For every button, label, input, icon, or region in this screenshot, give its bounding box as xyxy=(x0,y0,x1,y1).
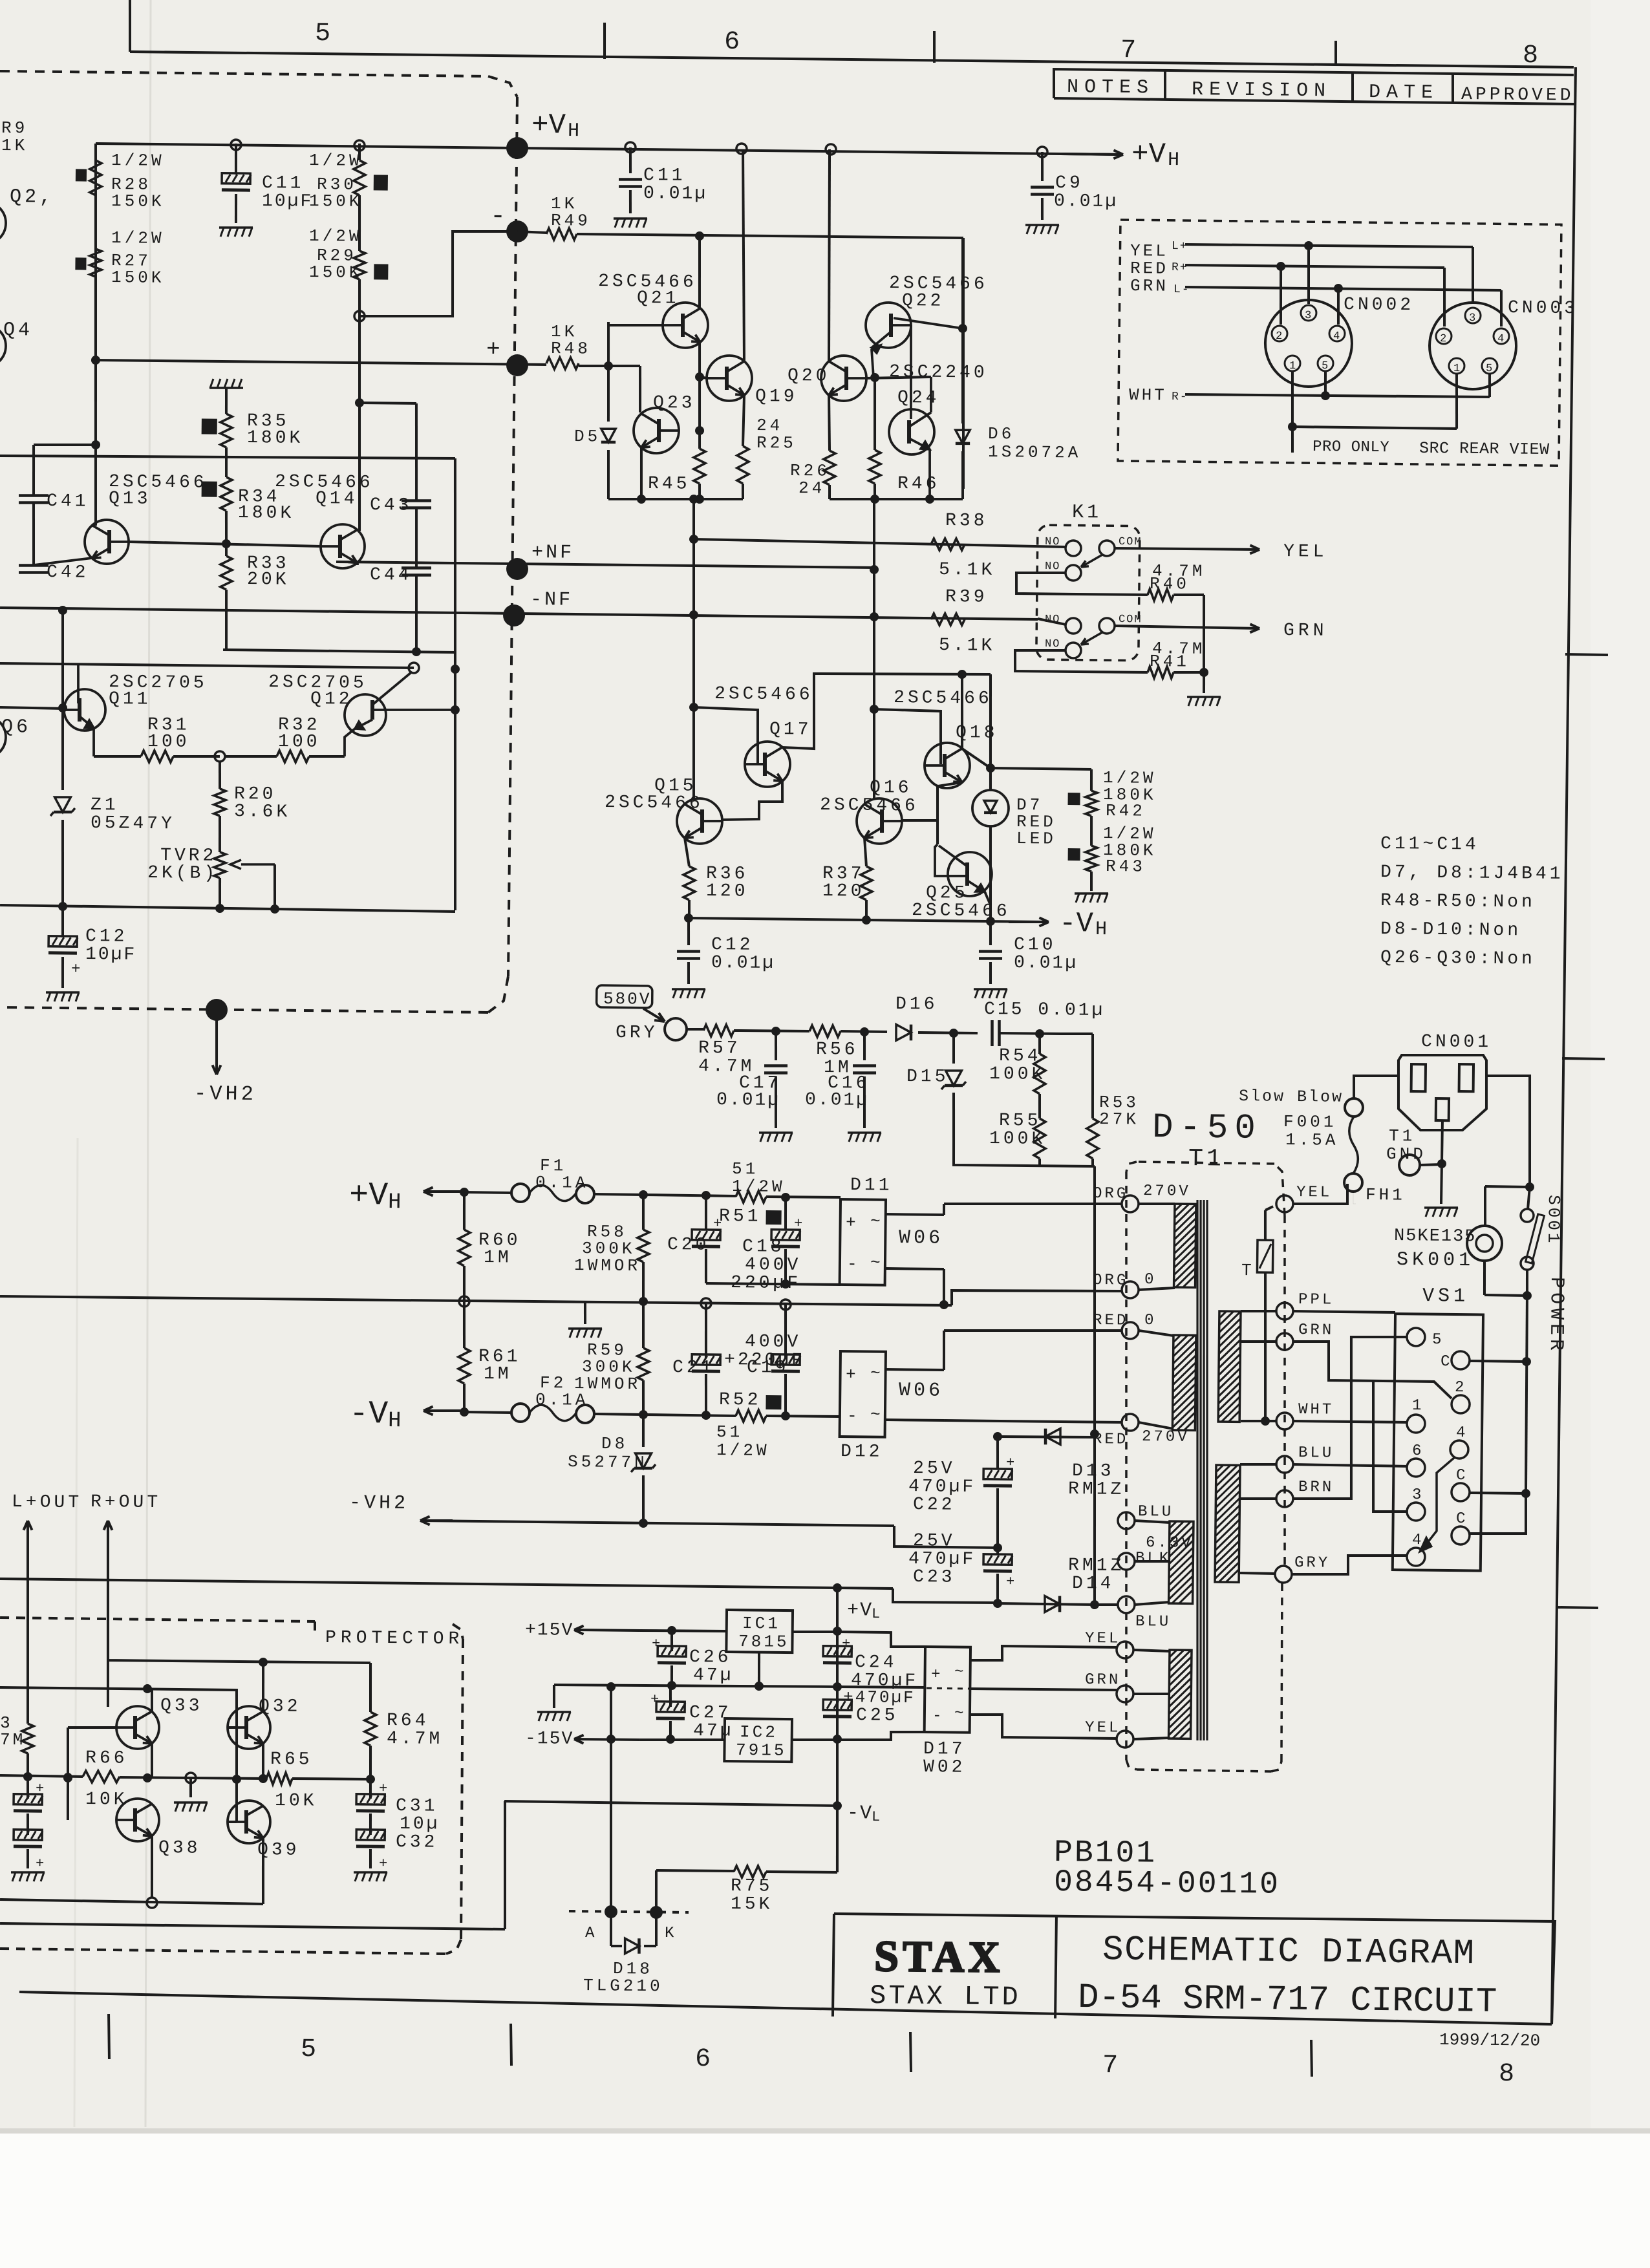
svg-text:7M: 7M xyxy=(0,1730,25,1749)
Q32-Q39 base bracket xyxy=(235,1728,237,1822)
fuse F2 xyxy=(511,1404,530,1422)
+15V wire to IC1 xyxy=(640,1631,727,1632)
capacitor C17 xyxy=(775,1031,778,1060)
D17 AC to YEL lower xyxy=(970,1714,1117,1738)
CN001 prong center xyxy=(1436,1098,1449,1120)
svg-text:270V: 270V xyxy=(1143,1182,1191,1201)
Q12 base wire to right column xyxy=(372,709,455,711)
resistor R51 51 1/2W xyxy=(736,1191,766,1203)
transistor Q17 xyxy=(745,742,791,787)
fuse body wiggle xyxy=(1349,1117,1358,1173)
TVR2 wiper arrow xyxy=(241,864,275,864)
transistor Q16 xyxy=(857,798,903,844)
resistor R39 on -NF row xyxy=(931,614,965,626)
svg-text:D12: D12 xyxy=(841,1442,883,1462)
ground stub mid xyxy=(584,1302,587,1324)
Q20 emitter to R26 xyxy=(828,395,830,451)
K1 COM contact top xyxy=(1099,540,1115,556)
capacitor C27 xyxy=(656,1702,685,1718)
partial circle Q4 xyxy=(0,325,6,368)
D7 red LED xyxy=(989,674,992,790)
svg-text:C41: C41 xyxy=(47,491,89,512)
svg-text:5.1K: 5.1K xyxy=(939,636,996,656)
wire R27 to junction xyxy=(94,277,97,401)
svg-text:Q13: Q13 xyxy=(109,489,151,509)
transistor Q11 xyxy=(64,689,106,731)
svg-text:D13: D13 xyxy=(1072,1461,1115,1482)
ground above R35 xyxy=(209,387,243,388)
transistor Q32 xyxy=(228,1706,271,1749)
LV secondary GRN pin xyxy=(1117,1685,1133,1702)
capacitor C42 xyxy=(19,564,48,567)
Q12 collector diag to node xyxy=(372,672,411,705)
svg-text:1.5A: 1.5A xyxy=(1285,1130,1339,1150)
svg-text:L+: L+ xyxy=(1172,240,1188,253)
wire left column x148 xyxy=(93,144,99,401)
row y2613 to Q32 base xyxy=(0,1687,237,1728)
resistor R54 xyxy=(1038,1034,1042,1054)
svg-text:R25: R25 xyxy=(756,433,797,453)
ground under C32 xyxy=(354,1872,387,1872)
svg-text:GRY: GRY xyxy=(616,1023,658,1043)
D14 row xyxy=(998,1603,1095,1605)
R30 heat square xyxy=(374,175,388,190)
grid tick 7/8 bottom xyxy=(1311,2040,1312,2077)
grid tick 5/6 top xyxy=(604,23,605,59)
capacitor C12 0.01u xyxy=(687,918,691,945)
resistor R36 xyxy=(683,866,696,900)
svg-text:C32: C32 xyxy=(396,1832,438,1853)
svg-text:POWER: POWER xyxy=(1545,1277,1567,1354)
svg-text:D14: D14 xyxy=(1072,1574,1115,1594)
CN002 pin 2 xyxy=(1272,326,1287,341)
CN002 pin 3 xyxy=(1301,305,1316,321)
A K dash row xyxy=(569,1911,689,1912)
IC1 gnd stub xyxy=(758,1652,759,1686)
resistor R26 xyxy=(824,451,836,485)
VS1 terminal C top xyxy=(1452,1351,1470,1369)
svg-text:R48-R50:Non: R48-R50:Non xyxy=(1380,891,1536,913)
VS1 terminal 6 xyxy=(1407,1459,1425,1477)
R34 heat square xyxy=(202,482,217,497)
diode D8 xyxy=(643,1415,643,1447)
wire R53 column xyxy=(1059,1032,1062,1035)
svg-text:S001: S001 xyxy=(1543,1195,1563,1246)
IC1 7815 box xyxy=(726,1610,793,1653)
K1 NO contact top2 xyxy=(1066,565,1081,581)
grid tick 6/7 top xyxy=(934,31,935,63)
fuse F001 holder FH1 top circle xyxy=(1345,1098,1363,1117)
wire R29 junction down xyxy=(359,279,359,316)
Q13 emitter diag to C42 column xyxy=(34,557,92,566)
diode D16 xyxy=(896,1025,911,1041)
transistor Q39 xyxy=(228,1801,271,1844)
svg-text:~: ~ xyxy=(870,1212,881,1231)
T1 core lines xyxy=(1192,1200,1203,1740)
svg-text:-VH2: -VH2 xyxy=(194,1082,257,1106)
wire TVR2 bottom xyxy=(219,878,220,910)
svg-text:W02: W02 xyxy=(923,1757,966,1778)
svg-text:1: 1 xyxy=(1289,360,1296,372)
svg-text:2SC5466: 2SC5466 xyxy=(894,688,992,709)
svg-text:C11: C11 xyxy=(643,166,686,186)
ground under C9 xyxy=(1025,224,1059,225)
svg-text:K: K xyxy=(665,1925,676,1942)
heater winding hatch xyxy=(1169,1521,1194,1603)
svg-text:1S2072A: 1S2072A xyxy=(988,442,1082,463)
resistor R34 xyxy=(220,477,233,511)
CN002 pin 5 xyxy=(1318,356,1333,371)
ground under C11-10uF xyxy=(219,227,253,228)
switch S001 xyxy=(1521,1209,1534,1222)
wire +VH to F1 xyxy=(464,1191,511,1194)
svg-text:7: 7 xyxy=(1102,2051,1119,2081)
left cell bottom bus xyxy=(608,498,743,501)
capacitor C22 xyxy=(997,1437,998,1469)
IC2 7915 box xyxy=(724,1718,792,1762)
svg-text:+: + xyxy=(36,1781,44,1797)
capacitor C21 xyxy=(705,1302,707,1354)
R- to CN003 pin5 xyxy=(1488,374,1492,397)
svg-text:C22: C22 xyxy=(913,1495,956,1515)
wire from minus dot to R29/R30 junction xyxy=(359,230,517,317)
svg-text:+V: +V xyxy=(349,1177,389,1215)
-NF rail wire xyxy=(0,608,1038,619)
svg-text:L: L xyxy=(872,1809,880,1825)
-VL row xyxy=(504,1801,837,1806)
svg-text:150K: 150K xyxy=(111,191,165,211)
svg-text:BLU: BLU xyxy=(1298,1444,1334,1462)
VS1 terminal 4 lower xyxy=(1407,1548,1425,1566)
svg-text:~: ~ xyxy=(870,1405,881,1424)
wire L- xyxy=(1185,287,1501,291)
svg-text:400V: 400V xyxy=(745,1332,802,1353)
capacitor C25 xyxy=(823,1700,852,1717)
K1 top NO2 loop to R40 xyxy=(1016,572,1148,595)
junction dot K xyxy=(650,1906,663,1919)
zener Z1 column xyxy=(61,608,65,790)
svg-text:5: 5 xyxy=(301,2035,317,2064)
CN001 inlet shape xyxy=(1398,1054,1487,1131)
svg-text:+V: +V xyxy=(847,1599,873,1621)
transistor Q25 xyxy=(948,852,992,897)
wire R35-R34 xyxy=(225,447,228,477)
Q18 collector to D7 tee xyxy=(962,749,991,768)
svg-text:S5277N: S5277N xyxy=(568,1452,648,1472)
resistor R27 xyxy=(90,249,102,277)
svg-text:C24: C24 xyxy=(855,1653,897,1673)
svg-text:Q6: Q6 xyxy=(1,716,31,738)
svg-text:Q14: Q14 xyxy=(316,489,358,509)
svg-text:1K: 1K xyxy=(1,136,28,155)
K1 arrow bot xyxy=(1081,632,1102,645)
CN001 prong right xyxy=(1459,1064,1473,1091)
wire R20 to TVR2 xyxy=(219,816,220,852)
D15 R55 R53 bottoms join xyxy=(954,1138,1095,1166)
svg-text:1M: 1M xyxy=(484,1248,512,1268)
CN002 pin 1 xyxy=(1285,356,1300,371)
svg-text:1M: 1M xyxy=(484,1364,512,1384)
svg-text:C18: C18 xyxy=(742,1237,785,1257)
CN001 center pin wire down xyxy=(1442,1120,1442,1164)
svg-text:H: H xyxy=(568,120,579,142)
minus big dot xyxy=(506,220,528,242)
wire 3 to GRN row xyxy=(1372,1382,1408,1512)
svg-text:REVISION: REVISION xyxy=(1192,79,1331,102)
row y1008 xyxy=(223,650,455,652)
Q12 emitter xyxy=(355,720,372,729)
svg-text:120: 120 xyxy=(706,881,749,902)
GRY terminal circle xyxy=(665,1018,687,1040)
svg-text:180K: 180K xyxy=(238,503,295,524)
BLU wire to VS1 pin6 xyxy=(1293,1464,1408,1466)
svg-text:7815: 7815 xyxy=(738,1632,789,1652)
plus rail wire xyxy=(96,359,546,365)
pin1 bus xyxy=(1292,427,1457,429)
wire left col down to Q13 xyxy=(93,277,98,526)
svg-text:120: 120 xyxy=(822,881,865,902)
resistor R45 xyxy=(694,449,706,484)
capacitor C34 xyxy=(27,1813,30,1835)
resistor R41 xyxy=(1148,667,1173,679)
resistor R58 xyxy=(643,1195,643,1230)
svg-text:D5: D5 xyxy=(574,427,601,446)
svg-text:150K: 150K xyxy=(309,191,363,211)
VS1 terminal 2 xyxy=(1452,1395,1470,1413)
junction dot left col xyxy=(91,356,100,365)
-VH2 big dot on dashed border xyxy=(206,999,228,1021)
svg-text:RED: RED xyxy=(1093,1431,1129,1449)
resistor R30 xyxy=(358,144,361,160)
svg-text:+: + xyxy=(713,1215,722,1232)
svg-text:BLU: BLU xyxy=(1138,1503,1174,1521)
svg-text:R64: R64 xyxy=(387,1711,429,1731)
Q19 collector to rail xyxy=(740,149,746,361)
svg-text:NO: NO xyxy=(1045,638,1061,650)
svg-text:L+OUT: L+OUT xyxy=(12,1492,82,1513)
svg-text:C23: C23 xyxy=(913,1567,956,1588)
svg-text:-VH2: -VH2 xyxy=(349,1492,409,1515)
resistor R43 xyxy=(1086,846,1098,872)
svg-text:NO: NO xyxy=(1045,561,1061,573)
svg-text:R57: R57 xyxy=(698,1038,741,1059)
svg-text:D15: D15 xyxy=(906,1067,949,1087)
jack SK001 circles xyxy=(1467,1226,1503,1261)
svg-text:5.1K: 5.1K xyxy=(939,560,996,581)
svg-text:+V: +V xyxy=(1131,138,1166,171)
svg-text:PROTECTOR: PROTECTOR xyxy=(325,1628,464,1649)
arrow -VH2 down xyxy=(216,1010,217,1075)
svg-text:4: 4 xyxy=(1456,1424,1467,1442)
wire -NF row into K1 NO xyxy=(1038,619,1066,625)
resistor R57 xyxy=(703,1025,734,1037)
transistor Q23 xyxy=(634,408,680,454)
FH1 bottom wire to F row xyxy=(1353,1192,1356,1204)
svg-text:D16: D16 xyxy=(895,994,938,1015)
R27 heat square xyxy=(75,257,86,270)
CN001 prong left xyxy=(1411,1064,1426,1091)
rail y2748 xyxy=(0,1775,83,1777)
svg-text:D-50: D-50 xyxy=(1152,1108,1262,1149)
svg-text:R45: R45 xyxy=(648,474,691,495)
svg-text:H: H xyxy=(1095,919,1107,941)
svg-text:4: 4 xyxy=(1333,330,1340,343)
C27 stems xyxy=(669,1687,672,1707)
svg-text:Q23: Q23 xyxy=(653,393,696,414)
Q25 base bracket xyxy=(935,844,968,877)
T thermal fuse xyxy=(1265,1206,1273,1210)
C21 C19 top stubs xyxy=(705,1306,707,1358)
svg-text:C9: C9 xyxy=(1055,173,1084,193)
svg-text:10µ: 10µ xyxy=(400,1814,440,1835)
wire to 0 pin lower xyxy=(944,1329,1122,1332)
svg-text:+: + xyxy=(846,1365,856,1384)
svg-text:C12: C12 xyxy=(711,935,754,956)
node circles on +VH rail xyxy=(231,140,241,150)
jack stem bottom xyxy=(1484,1261,1484,1295)
svg-text:APPROVED: APPROVED xyxy=(1461,85,1574,106)
resistor R66 xyxy=(83,1771,120,1783)
wire R+ xyxy=(1185,265,1444,268)
secondary pin GRN xyxy=(1276,1333,1293,1350)
svg-text:+: + xyxy=(842,1636,850,1652)
Q18 collector to wire xyxy=(961,674,963,749)
svg-text:R38: R38 xyxy=(945,511,988,531)
svg-text:-V: -V xyxy=(847,1803,873,1824)
svg-text:WHT: WHT xyxy=(1129,385,1167,405)
svg-text:-V: -V xyxy=(1059,908,1094,941)
K1 NO contact bot2 xyxy=(1066,643,1081,658)
wire F2 to R52 row xyxy=(643,1415,736,1416)
svg-text:6: 6 xyxy=(695,2045,711,2074)
CN002 connector circle xyxy=(1265,299,1352,387)
L+OUT arrow up xyxy=(26,1521,30,1724)
wire stub left xyxy=(34,444,96,445)
svg-text:Q32: Q32 xyxy=(259,1696,301,1717)
svg-text:4: 4 xyxy=(1497,333,1504,345)
dashed protector bottom xyxy=(0,1949,446,1954)
CN003 pin 1 xyxy=(1449,358,1464,374)
resistor R38 xyxy=(931,539,965,551)
svg-text:C43: C43 xyxy=(370,495,412,516)
svg-text:1: 1 xyxy=(1453,363,1460,375)
VS1 terminal C mid xyxy=(1452,1483,1470,1501)
svg-text:1999/12/20: 1999/12/20 xyxy=(1439,2030,1540,2051)
svg-text:150K: 150K xyxy=(309,262,363,283)
junction +VH xyxy=(460,1188,469,1197)
heater pin BLU upper xyxy=(1118,1512,1135,1529)
+NF rail wire xyxy=(336,562,874,568)
junction dot A xyxy=(605,1905,617,1918)
S001 wires xyxy=(1528,1187,1530,1209)
svg-text:F001: F001 xyxy=(1283,1112,1337,1132)
svg-text:R-: R- xyxy=(1172,390,1188,403)
node circles on +VH rail mid xyxy=(625,142,636,153)
resistor R48 xyxy=(546,358,579,370)
Q17 emitter to Q15 base xyxy=(722,780,782,820)
zero row mid xyxy=(464,1300,952,1306)
svg-text:10µF: 10µF xyxy=(262,191,314,212)
svg-text:NO: NO xyxy=(1045,536,1061,548)
K1 COM contact bot xyxy=(1099,618,1115,634)
wire D16 to D15 node xyxy=(918,1031,978,1034)
capacitor C41 xyxy=(19,494,48,497)
svg-text:C25: C25 xyxy=(856,1706,899,1726)
svg-text:R26: R26 xyxy=(790,461,830,481)
R28 heat square xyxy=(76,169,87,181)
svg-text:C10: C10 xyxy=(1014,935,1056,956)
svg-text:0.01µ: 0.01µ xyxy=(643,184,707,204)
Q23 emitter down xyxy=(641,447,642,499)
svg-text:T1: T1 xyxy=(1188,1145,1225,1173)
capacitor C11 0.01u xyxy=(629,147,632,173)
transistor Q18 xyxy=(925,743,970,789)
CN003 pin 5 xyxy=(1482,358,1497,374)
svg-text:C: C xyxy=(1456,1510,1467,1528)
svg-text:+: + xyxy=(36,1856,44,1872)
svg-text:LED: LED xyxy=(1016,829,1056,849)
transistor Q33 xyxy=(116,1706,160,1749)
wire to 270V pin upper xyxy=(944,1202,1122,1206)
wire from rail down x945 xyxy=(608,1687,613,1912)
-15V row to IC2 xyxy=(640,1739,725,1741)
primary pin 270V lower xyxy=(1122,1414,1139,1431)
secondary pin WHT xyxy=(1276,1413,1293,1429)
svg-text:C20: C20 xyxy=(667,1235,710,1256)
+NF big dot xyxy=(506,558,528,580)
row y2942 xyxy=(0,1899,263,1904)
resistor R52 xyxy=(736,1410,766,1422)
ground under C10 xyxy=(974,989,1007,989)
Q14 emitter stub xyxy=(356,563,359,565)
svg-text:0.01µ: 0.01µ xyxy=(1054,191,1118,212)
svg-text:Q24: Q24 xyxy=(897,388,940,409)
Q20 base wire xyxy=(866,376,931,379)
svg-text:5: 5 xyxy=(1486,363,1492,375)
horizontal wire y1400 xyxy=(0,905,455,912)
K1 arrow top xyxy=(1081,555,1102,568)
ground rail between IC1 IC2 xyxy=(554,1684,837,1688)
ground under C16 xyxy=(848,1132,881,1133)
wire R60 to mid row xyxy=(464,1266,464,1301)
Q21 base column with D5 xyxy=(607,322,609,422)
K1 NO contact top1 xyxy=(1066,540,1081,556)
resistor R20 xyxy=(214,789,226,816)
svg-text:15K: 15K xyxy=(731,1894,773,1915)
Q25 emitter diag xyxy=(967,881,985,892)
jog to D14 row xyxy=(893,1589,998,1603)
GRN wire to VS1 pin2 xyxy=(1292,1341,1452,1398)
D17 minus wire via bottom xyxy=(839,1731,925,1741)
svg-text:0.1A: 0.1A xyxy=(535,1390,589,1410)
transistor Q14 xyxy=(321,524,365,569)
svg-text:Q17: Q17 xyxy=(769,720,812,740)
connectors dashed box xyxy=(1118,220,1561,465)
svg-text:H: H xyxy=(388,1190,402,1215)
arrow +VH right xyxy=(1060,154,1123,155)
Q33 emitter to rail xyxy=(151,1744,152,1777)
svg-text:R51: R51 xyxy=(719,1206,762,1227)
svg-text:IC2: IC2 xyxy=(740,1722,778,1742)
capacitor C20 electrolytic xyxy=(705,1195,706,1230)
svg-text:+: + xyxy=(1006,1455,1014,1471)
Q15 emitter to R36 xyxy=(685,838,690,866)
svg-text:2SC5466: 2SC5466 xyxy=(714,684,813,705)
K1 wire to GRN xyxy=(1115,626,1259,628)
svg-text:0.01µ: 0.01µ xyxy=(716,1090,780,1111)
svg-text:YEL: YEL xyxy=(1085,1630,1121,1648)
svg-text:R75: R75 xyxy=(731,1876,773,1897)
